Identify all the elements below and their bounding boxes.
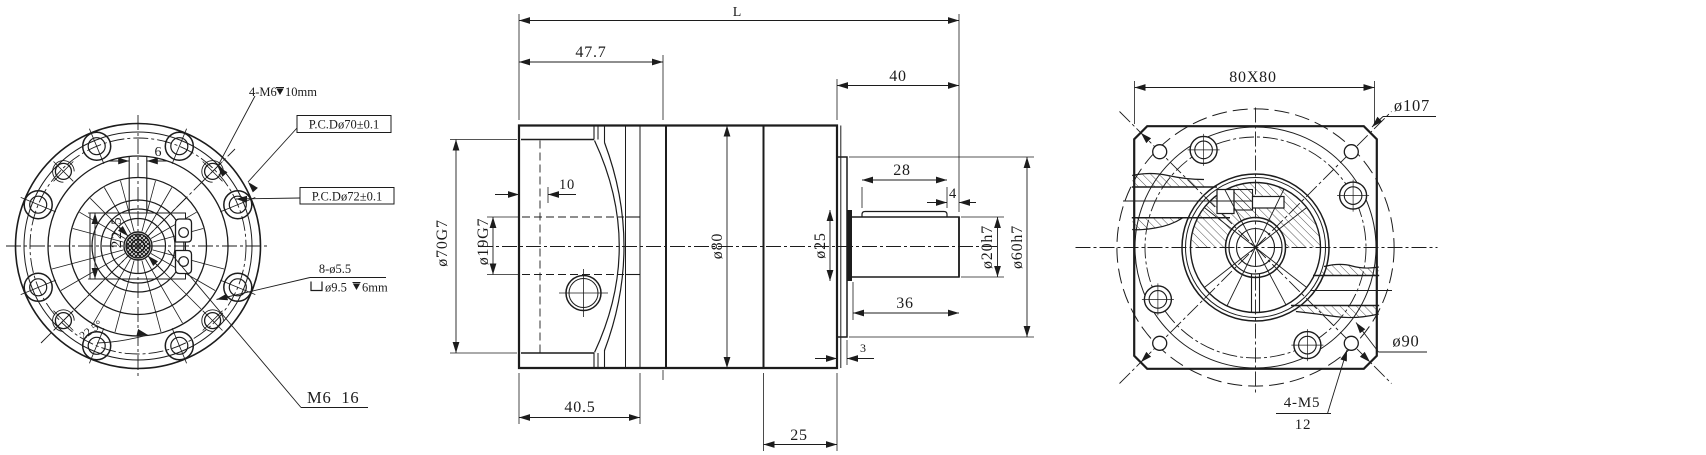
carrier hub circle outer <box>1226 218 1286 278</box>
svg-text:22.5: 22.5 <box>109 216 125 248</box>
left key slot axis line <box>1123 200 1253 202</box>
key slot rect <box>1253 197 1285 209</box>
svg-text:10: 10 <box>559 177 575 193</box>
output shaft dia20 <box>852 217 959 277</box>
svg-text:12: 12 <box>1295 417 1312 433</box>
output hub disc dia25 <box>847 210 853 281</box>
clamp tab upper <box>176 219 192 242</box>
output shaft key <box>862 212 947 218</box>
bell curve inner arc <box>595 141 620 353</box>
angle 22.5deg arc <box>97 335 148 343</box>
body circle dia80 inscribed <box>1135 127 1376 368</box>
dimension dia70G7 line <box>455 140 457 354</box>
dimension dia19G7 ext bottom <box>487 274 519 276</box>
dimension 4 ext <box>946 187 948 208</box>
input hub rect top <box>626 216 641 218</box>
dimension 47.7 line <box>519 61 663 63</box>
dimension 80X80 ext <box>1134 81 1136 124</box>
4-M5 corner tapped holes <box>1344 336 1358 350</box>
flange step vertical 594 bottom <box>593 353 595 368</box>
dimension L ext right <box>958 14 960 212</box>
left view vertical centerline <box>137 115 139 377</box>
svg-text:ø90: ø90 <box>1392 332 1419 351</box>
left view flange step circle <box>24 132 252 360</box>
input hub rect bottom <box>626 274 641 276</box>
dimension 47.7 ext <box>662 55 664 120</box>
dimension 3 arrows <box>815 358 837 360</box>
dimension L line <box>519 20 959 22</box>
dimension L ext left <box>518 14 520 120</box>
housing joint vertical 625 <box>625 126 627 369</box>
8 counterbored holes 8-dia5.5 cbore dia9.5 <box>224 191 252 219</box>
svg-text:L: L <box>733 5 742 20</box>
hidden bore vertical dashed <box>539 141 541 353</box>
right key slot bottom line <box>1291 305 1379 307</box>
hidden bore bottom dashed <box>522 274 624 276</box>
dimension dia20h7 line <box>997 217 999 277</box>
carrier upper section hatch <box>1191 183 1321 248</box>
label PCD70 box <box>297 116 391 133</box>
clamp tab upper screw hole <box>179 228 189 238</box>
dimension 40.5 line <box>519 417 640 419</box>
svg-text:10mm: 10mm <box>285 85 317 99</box>
dimension 10 ext <box>547 187 549 203</box>
left view hub circle r37 <box>101 209 175 283</box>
clamp screw cross vertical <box>583 269 585 317</box>
leader PCD70 <box>248 128 297 182</box>
left key slot top line <box>1132 186 1217 188</box>
hidden bore top dashed <box>522 216 624 218</box>
svg-text:ø9.5: ø9.5 <box>325 281 347 295</box>
right key slot top line <box>1313 275 1379 277</box>
input flange inner bottom line <box>521 352 594 354</box>
dimension dia19G7 ext top <box>487 216 519 218</box>
front pilot circle inner <box>1191 183 1321 313</box>
flange step vertical 598 bottom <box>597 353 599 368</box>
right view square flange outline <box>1134 126 1377 369</box>
flange step vertical 604 bottom <box>604 350 606 368</box>
svg-text:ø107: ø107 <box>1394 96 1430 115</box>
bore diameter arrow lower-right <box>148 256 163 271</box>
bolt pitch circle dash-dot <box>1145 137 1366 358</box>
svg-text:4-M5: 4-M5 <box>1284 395 1321 411</box>
dimension dia70G7 ext bottom <box>450 352 517 354</box>
svg-text:36: 36 <box>896 295 914 312</box>
diagonal arrow BR <box>1360 352 1370 362</box>
middle view centerline <box>478 246 998 248</box>
leader dia107 <box>1383 116 1436 118</box>
leader M6 16 <box>168 250 301 408</box>
bore diameter arrow upper-left <box>113 221 128 236</box>
clamp tab lower screw hole <box>179 257 189 267</box>
dimension 40.5 ext left <box>518 373 520 424</box>
right section hatch lower <box>1291 306 1379 318</box>
output boss dia60 <box>837 157 847 337</box>
clamp screw hole inner <box>569 279 598 308</box>
dimension 80X80 line <box>1135 87 1375 89</box>
clamp screw cross horizontal <box>559 292 608 294</box>
phantom circle PCD90 <box>1117 109 1394 386</box>
left view hatched input shaft section <box>126 234 150 258</box>
label PCD72 box <box>300 188 394 205</box>
clamp screw hole outer <box>566 276 601 311</box>
dimension 36 ext left <box>852 282 854 320</box>
left key slot bottom line <box>1132 217 1230 219</box>
dimension 22.5 ext bottom <box>88 278 104 280</box>
input flange inner top line <box>521 139 594 141</box>
clamp slit right line <box>146 157 148 213</box>
left view gear ring circle <box>70 178 207 315</box>
4 M6 tapped holes 4-M6 depth10 <box>205 163 221 179</box>
output shaft end line <box>958 217 960 277</box>
svg-text:8-ø5.5: 8-ø5.5 <box>319 262 351 276</box>
svg-text:ø20h7: ø20h7 <box>979 225 996 269</box>
leader 4-M5 <box>1328 350 1348 414</box>
dimension 25 ext right <box>836 373 838 451</box>
right view horizontal centerline <box>1076 247 1438 249</box>
clamp tab lower <box>176 251 192 274</box>
dimension dia80 line <box>726 126 728 369</box>
leader PCD72 <box>236 198 300 199</box>
dimension 36 line <box>853 312 959 314</box>
left view outer flange circle <box>16 124 261 369</box>
diagonal centerline BLTR <box>1120 112 1392 384</box>
dimension 40.5 ext right <box>639 373 641 424</box>
4 through bolt holes <box>1340 182 1367 209</box>
dimension 6 right arrow <box>147 160 167 162</box>
front pilot circle middle <box>1186 178 1326 318</box>
carrier bottom arm <box>1251 274 1253 312</box>
dimension dia19G7 line <box>492 217 494 275</box>
dimension dia20h7 ext <box>961 216 1004 218</box>
dimension 6 left arrow <box>109 160 129 162</box>
gearbox body outline <box>519 126 837 369</box>
carrier section fan lines <box>1204 208 1306 288</box>
left view input bore small circle <box>132 240 145 253</box>
right key slot axis line <box>1310 290 1392 292</box>
svg-text:P.C.Dø70±0.1: P.C.Dø70±0.1 <box>309 118 379 132</box>
left view body circle <box>48 156 228 336</box>
flange step vertical 598 top <box>597 126 599 140</box>
flange step vertical 594 top <box>593 126 595 140</box>
dimension 28 line <box>862 179 947 181</box>
output shaft hole circle <box>1237 229 1275 267</box>
svg-text:3: 3 <box>860 341 866 355</box>
dimension dia25 line <box>829 210 831 281</box>
svg-text:ø80: ø80 <box>709 233 726 259</box>
svg-text:4: 4 <box>949 186 957 202</box>
left section hatch lower <box>1132 218 1183 230</box>
clamp slit left line <box>128 157 130 213</box>
diagonal centerline TLBR <box>1120 112 1392 384</box>
svg-text:M6 16: M6 16 <box>307 388 359 407</box>
dimension dia60h7 ext <box>849 156 1034 158</box>
diagonal arrow BL <box>1141 352 1151 362</box>
dimension 40 line <box>837 85 959 87</box>
housing joint vertical 666 thick <box>665 126 667 369</box>
svg-text:ø70G7: ø70G7 <box>434 219 451 267</box>
svg-text:6: 6 <box>155 145 162 160</box>
leader 4-M6 <box>218 96 255 166</box>
bell curve outer arc <box>605 143 625 351</box>
dimension 3 ext <box>846 340 848 365</box>
dimension 25 ext left <box>763 373 765 451</box>
leader dia90 <box>1379 351 1428 353</box>
dimension dia70G7 ext top <box>450 139 517 141</box>
right view vertical centerline <box>1255 108 1257 394</box>
svg-text:ø25: ø25 <box>812 232 829 258</box>
housing joint vertical 763 thick <box>763 126 765 369</box>
dimension dia60h7 line <box>1026 157 1028 337</box>
dimension 22.5 line <box>94 213 96 279</box>
dimension 28 ext left <box>861 187 863 208</box>
left view radial section spokes <box>153 229 204 243</box>
right section hatch upper <box>1320 264 1379 275</box>
left view square frame 22.5 <box>90 213 186 279</box>
left view 45deg diagonal centerline <box>41 149 235 343</box>
svg-text:ø60h7: ø60h7 <box>1009 225 1026 269</box>
left view hub circle r46 <box>92 200 184 292</box>
svg-text:25: 25 <box>790 427 808 444</box>
housing joint vertical 640 <box>639 126 641 369</box>
dimension 25 line <box>764 444 838 446</box>
left view shaft bore circle <box>124 232 152 260</box>
diagonal arrow TL <box>1141 133 1151 143</box>
svg-text:47.7: 47.7 <box>575 44 606 61</box>
body joint ext tick <box>662 370 664 380</box>
label cbore dia9.5 depth6 <box>311 282 322 291</box>
keyway pocket rect <box>1217 190 1234 214</box>
svg-text:28: 28 <box>893 162 911 179</box>
svg-text:80X80: 80X80 <box>1229 69 1277 86</box>
keyway hatched block <box>1234 190 1253 211</box>
svg-text:4-M6: 4-M6 <box>249 85 277 99</box>
flange step vertical 604 top <box>604 126 606 143</box>
svg-text:40: 40 <box>889 68 907 85</box>
dimension 10 line <box>495 194 519 196</box>
svg-text:ø19G7: ø19G7 <box>475 218 492 266</box>
left section hatch upper <box>1132 174 1212 188</box>
body face inner line <box>840 126 842 369</box>
dimension 40 ext <box>836 79 838 120</box>
svg-text:40.5: 40.5 <box>564 399 595 416</box>
svg-text:P.C.Dø72±0.1: P.C.Dø72±0.1 <box>312 190 382 204</box>
left view bolt pitch circle PCD72 <box>30 138 246 354</box>
front pilot circle outer <box>1182 174 1329 321</box>
dimension 4 arrows <box>927 202 947 204</box>
dimension 22.5 ext top <box>88 212 104 214</box>
left view collar circle <box>111 219 166 274</box>
carrier hub circle middle <box>1229 221 1282 274</box>
left view horizontal centerline <box>6 245 270 247</box>
svg-text:6mm: 6mm <box>362 281 388 295</box>
leader 8-dia5.5 line <box>310 277 386 279</box>
